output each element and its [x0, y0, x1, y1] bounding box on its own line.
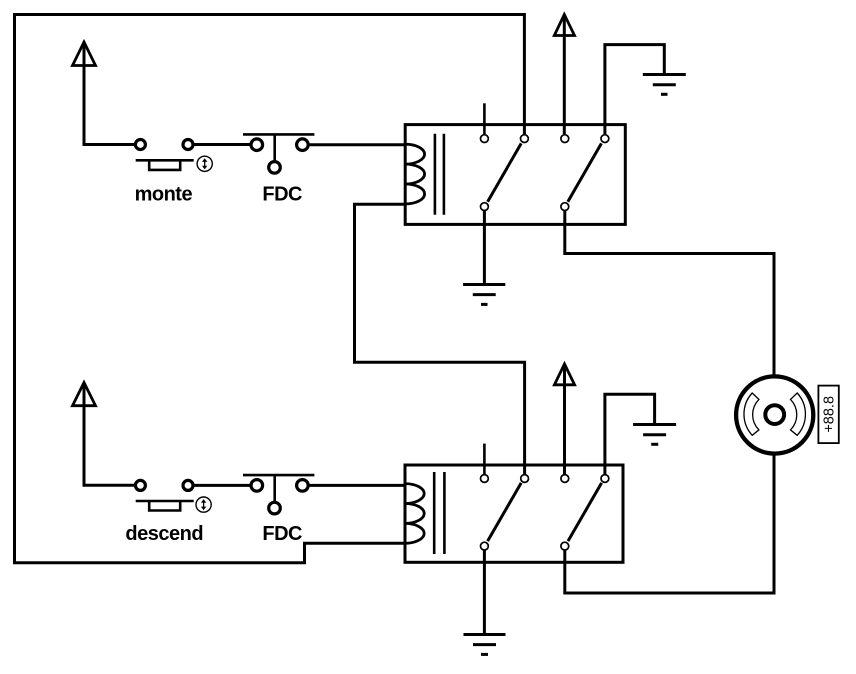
- motor M1 right brush: [791, 393, 806, 435]
- wire FDC2 to relay K2 coil: [309, 484, 407, 487]
- wire K1 coil return to K2 terminal 2 (crossover): [355, 204, 525, 475]
- display meter box: [818, 386, 838, 444]
- svg-text:FDC: FDC: [262, 183, 302, 205]
- wire K2 common A to ground: [483, 550, 486, 633]
- motor M1 left brush: [744, 393, 759, 435]
- ground G1: [643, 75, 686, 95]
- wire K2 common B to motor bottom: [565, 452, 774, 593]
- relay K2 core bars: [434, 472, 444, 554]
- stub pin above K1 terminal 1: [483, 103, 486, 134]
- wire supply-loop: top border, left border, bottom border: [15, 15, 525, 563]
- power arrow P3 (descend supply): [73, 383, 137, 486]
- wire FDC1 to relay K1 coil: [309, 143, 407, 146]
- relay K1 terminal circles: [481, 135, 609, 211]
- relay K1 box: [405, 125, 625, 225]
- wire K1 common A to ground: [483, 211, 486, 283]
- wire K1 common B to motor top: [565, 211, 774, 378]
- ground G3: [633, 425, 676, 445]
- wire K1 terminal 4 to ground: [605, 45, 664, 134]
- direction indicator circle (descend): [196, 497, 211, 512]
- svg-text:FDC: FDC: [262, 523, 302, 545]
- power arrow P1 (monte supply): [73, 42, 137, 145]
- ground G2: [463, 285, 505, 305]
- relay K2 contact blade B: [568, 483, 602, 541]
- relay K1 contact blade B: [568, 143, 602, 201]
- relay K2 box: [405, 465, 623, 562]
- relay K2 terminal circles: [481, 475, 609, 550]
- svg-text:descend: descend: [125, 523, 203, 545]
- direction indicator circle (monte): [197, 156, 212, 171]
- ground G4: [464, 635, 506, 655]
- push button "monte" SW1: [135, 140, 250, 170]
- relay K1 core bars: [435, 134, 444, 215]
- svg-text:+88.8: +88.8: [822, 396, 838, 433]
- relay K2 coil: [405, 484, 424, 544]
- wire K2 terminal 4 to ground: [605, 394, 655, 474]
- power arrow P4 on K2 terminal 3: [554, 364, 574, 474]
- motor M1 body: [736, 376, 813, 453]
- relay K1 coil: [405, 144, 424, 204]
- stub pin above K2 terminal 1: [483, 444, 486, 474]
- limit switch FDC1: [243, 134, 314, 173]
- power arrow P2 on K1 terminal 3: [554, 15, 574, 135]
- svg-text:monte: monte: [135, 183, 193, 205]
- relay K2 contact blade A: [488, 483, 522, 541]
- limit switch FDC2: [243, 475, 314, 514]
- motor M1 shaft: [765, 405, 784, 424]
- relay K1 contact blade A: [488, 143, 522, 201]
- push button "descend" SW2: [135, 480, 250, 510]
